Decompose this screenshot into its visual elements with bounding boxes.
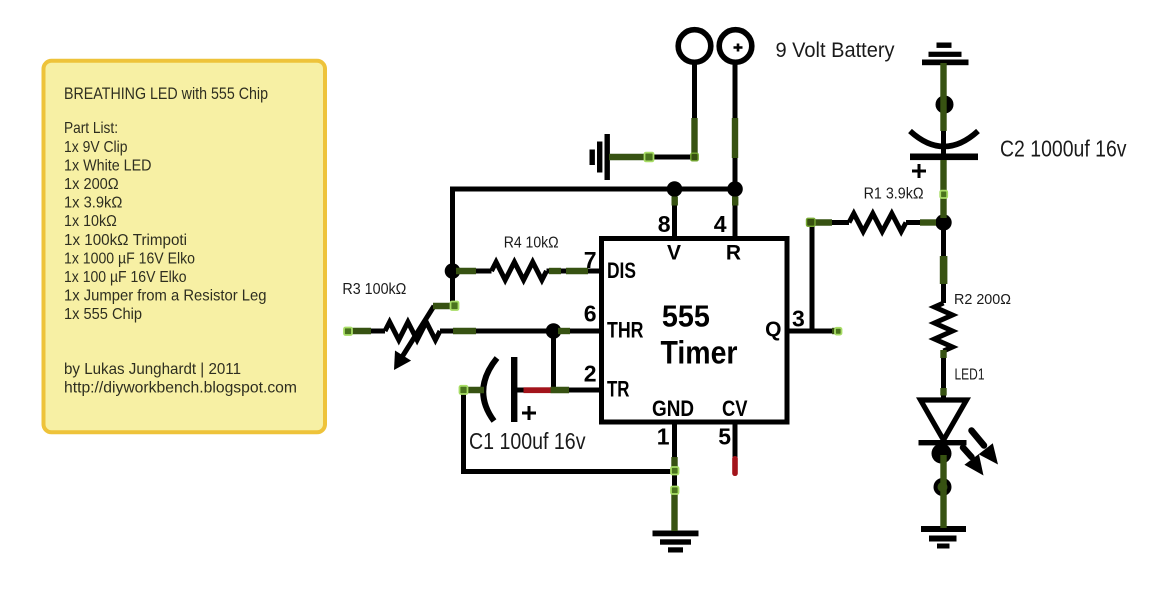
svg-text:4: 4 [714,211,727,237]
svg-text:THR: THR [607,318,644,343]
svg-text:V: V [667,242,681,265]
svg-text:TR: TR [607,376,630,401]
svg-text:555: 555 [662,298,710,333]
svg-text:5: 5 [718,424,731,450]
svg-text:1x 200Ω: 1x 200Ω [64,176,119,193]
svg-text:C1 100uf 16v: C1 100uf 16v [469,428,586,454]
svg-text:R2 200Ω: R2 200Ω [954,291,1011,308]
svg-text:LED1: LED1 [955,367,985,384]
svg-text:CV: CV [722,396,748,421]
svg-text:1x 555 Chip: 1x 555 Chip [64,306,142,323]
svg-text:3: 3 [792,306,805,332]
svg-text:C2 1000uf 16v: C2 1000uf 16v [1000,136,1127,162]
svg-text:6: 6 [584,300,597,326]
svg-text:9 Volt Battery: 9 Volt Battery [776,39,895,62]
svg-text:Timer: Timer [661,334,738,370]
svg-text:Part List:: Part List: [64,120,118,137]
svg-text:1x 10kΩ: 1x 10kΩ [64,213,117,230]
svg-text:Q: Q [765,318,781,341]
svg-text:1x 1000 µF 16V Elko: 1x 1000 µF 16V Elko [64,250,195,267]
svg-text:7: 7 [584,247,597,273]
svg-text:R1 3.9kΩ: R1 3.9kΩ [864,186,924,203]
svg-text:8: 8 [658,211,671,237]
svg-text:BREATHING LED with 555 Chip: BREATHING LED with 555 Chip [64,84,268,103]
svg-text:1: 1 [657,424,670,450]
svg-text:by Lukas Junghardt | 2011: by Lukas Junghardt | 2011 [64,361,241,378]
svg-text:1x 100 µF 16V Elko: 1x 100 µF 16V Elko [64,269,187,286]
svg-text:1x White LED: 1x White LED [64,157,152,174]
svg-text:1x 100kΩ Trimpoti: 1x 100kΩ Trimpoti [64,232,187,249]
svg-text:2: 2 [584,361,597,387]
svg-text:R3 100kΩ: R3 100kΩ [342,281,406,298]
svg-text:R4 10kΩ: R4 10kΩ [504,235,559,252]
svg-text:http://diyworkbench.blogspot.c: http://diyworkbench.blogspot.com [64,379,297,396]
svg-text:1x 3.9kΩ: 1x 3.9kΩ [64,195,122,212]
svg-text:GND: GND [652,396,694,421]
svg-text:R: R [726,242,741,265]
svg-text:1x 9V Clip: 1x 9V Clip [64,139,128,156]
svg-text:DIS: DIS [607,258,636,283]
svg-text:1x Jumper from a Resistor Leg: 1x Jumper from a Resistor Leg [64,288,267,305]
